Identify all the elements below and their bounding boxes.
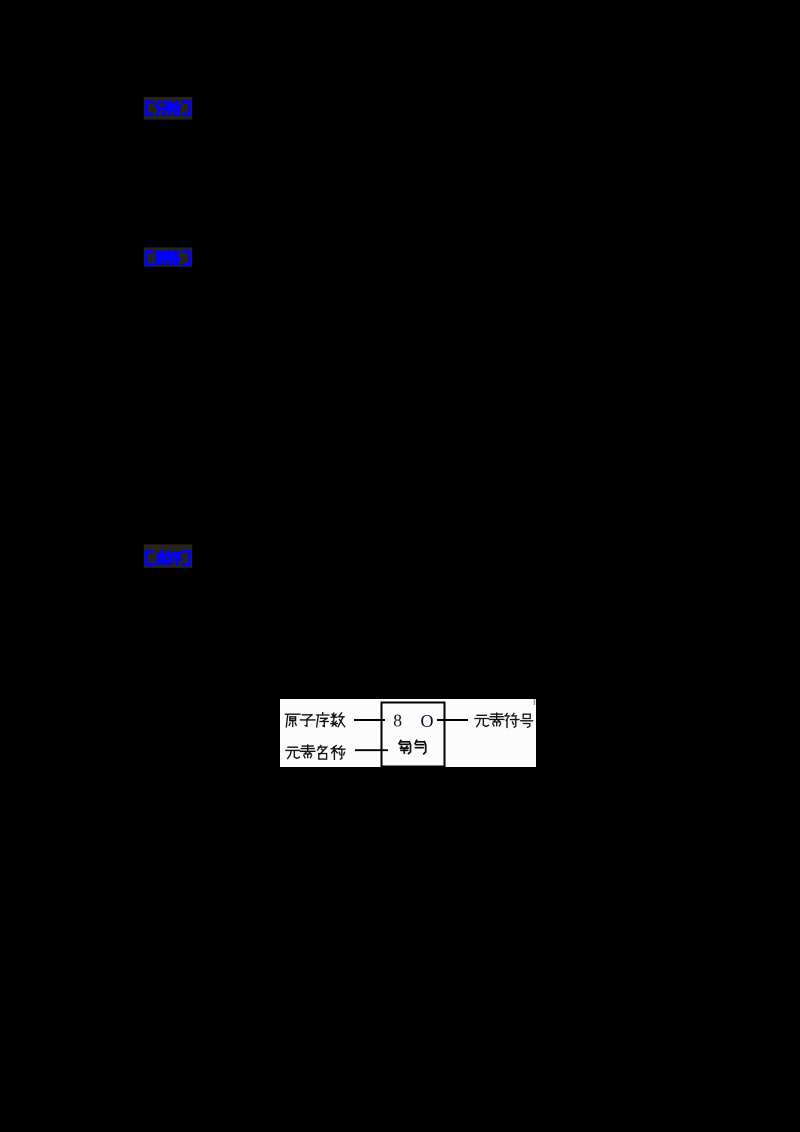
svg-text:8: 8 [393, 711, 402, 731]
svg-text:O: O [421, 711, 434, 731]
